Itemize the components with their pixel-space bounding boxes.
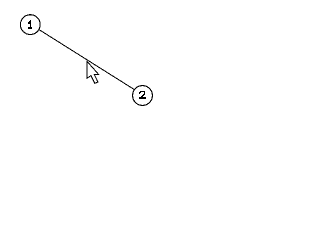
node 2 label "2" bbox=[139, 91, 146, 99]
node 1 label "1" bbox=[28, 20, 32, 29]
node 1 circle bbox=[20, 15, 40, 35]
mouse cursor arrow bbox=[87, 61, 99, 83]
node 2 circle bbox=[133, 86, 153, 106]
wire edge between node 1 and node 2 bbox=[30, 24, 142, 95]
